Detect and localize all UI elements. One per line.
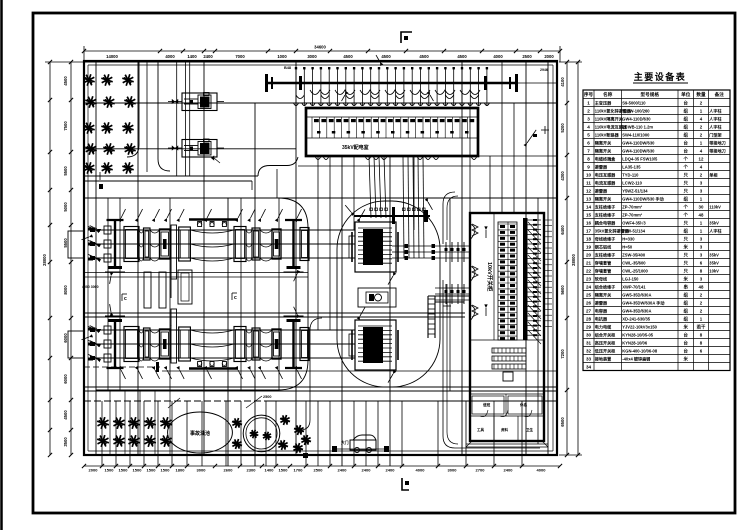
tree strip road edges: [127, 62, 139, 157]
svg-text:单位: 单位: [681, 91, 691, 98]
incoming jumper arrows left: [88, 326, 96, 330]
gate marks bottom: [332, 446, 337, 452]
section marker 1 (bottom): [402, 478, 409, 490]
svg-text:事故油池: 事故油池: [190, 430, 210, 437]
bay terminal towers: [114, 319, 116, 369]
bay leader arrows: [121, 209, 126, 218]
svg-text:组合绝缘子: 组合绝缘子: [595, 283, 615, 289]
svg-text:KYN28-10/06: KYN28-10/06: [622, 340, 648, 345]
svg-text:LGJ-150: LGJ-150: [622, 276, 639, 281]
svg-text:31: 31: [586, 340, 592, 345]
bay overhead ground bar: [189, 367, 238, 369]
svg-text:21: 21: [586, 260, 592, 265]
svg-text:只: 只: [684, 259, 689, 266]
svg-text:14: 14: [586, 204, 592, 209]
svg-text:6000: 6000: [63, 374, 68, 384]
svg-text:GW4-35DW/630A 手动: GW4-35DW/630A 手动: [622, 299, 664, 305]
svg-text:组: 组: [684, 107, 689, 114]
svg-text:3000: 3000: [307, 54, 317, 59]
svg-text:避雷器: 避雷器: [595, 187, 608, 193]
svg-text:4500: 4500: [457, 54, 467, 59]
cable runs group B: [403, 156, 404, 258]
svg-text:组: 组: [684, 291, 689, 298]
svg-text:1500: 1500: [133, 468, 143, 473]
transformer leader arrows: [360, 209, 365, 218]
svg-text:只: 只: [684, 219, 689, 226]
page left scan edge: [0, 0, 3, 530]
pole-mounted device pad: [182, 140, 217, 158]
right side road lines: [478, 155, 557, 157]
sag curves between equipment: [139, 230, 144, 233]
svg-text:GW5-35D/630A: GW5-35D/630A: [622, 292, 651, 297]
svg-text:34: 34: [586, 364, 592, 369]
section marker 1 (top): [401, 32, 412, 43]
10kV busbar: [523, 218, 528, 340]
bridge insulator ticks: [445, 242, 447, 262]
svg-text:避雷器: 避雷器: [595, 299, 608, 305]
svg-text:人字柱: 人字柱: [709, 107, 722, 113]
svg-text:24: 24: [586, 284, 592, 289]
svg-text:14000: 14000: [106, 54, 118, 59]
svg-text:只: 只: [684, 235, 689, 242]
jumper loop row under busbar: [310, 90, 330, 95]
svg-text:5500: 5500: [63, 238, 68, 248]
svg-text:只: 只: [684, 179, 689, 186]
svg-text:4000: 4000: [416, 468, 426, 473]
cable runs 35kV to transformers: group A: [369, 156, 371, 218]
svg-text:1700: 1700: [294, 468, 304, 473]
svg-text:48: 48: [699, 284, 704, 289]
doors on left wall: [470, 224, 475, 240]
svg-text:人字柱: 人字柱: [709, 227, 722, 233]
svg-text:组: 组: [684, 315, 689, 322]
post insulator stacks left: [104, 226, 111, 234]
svg-text:只: 只: [684, 171, 689, 178]
svg-text:2400: 2400: [203, 54, 213, 59]
svg-text:8: 8: [587, 156, 590, 161]
svg-text:单相: 单相: [709, 171, 717, 177]
svg-text:台: 台: [684, 331, 689, 338]
svg-text:接地装置: 接地装置: [595, 355, 611, 361]
110kV yard road outline: [96, 198, 308, 390]
svg-text:YJV22-10kV3x150: YJV22-10kV3x150: [622, 324, 657, 329]
35kV switchgear building: [306, 108, 478, 156]
sag curves between equipment: [139, 330, 144, 333]
svg-text:个: 个: [683, 211, 689, 217]
incoming jumper arrows left: [88, 226, 96, 230]
svg-text:20: 20: [586, 252, 592, 257]
svg-text:c: c: [124, 296, 127, 302]
svg-text:个: 个: [683, 203, 689, 209]
tree grove bottom-left: [97, 417, 109, 429]
svg-text:资料: 资料: [501, 427, 509, 432]
svg-text:隔离开关: 隔离开关: [595, 139, 612, 145]
svg-text:值班: 值班: [483, 402, 491, 407]
site boundary wall: [84, 61, 557, 455]
svg-text:LCWB-110 1.2m: LCWB-110 1.2m: [622, 124, 653, 129]
svg-text:23: 23: [586, 276, 592, 281]
svg-text:CWL-25/1000: CWL-25/1000: [622, 268, 648, 273]
svg-text:2600: 2600: [224, 468, 234, 473]
svg-text:4500: 4500: [381, 54, 391, 59]
svg-text:组合开关柜: 组合开关柜: [595, 331, 615, 337]
svg-text:电抗器: 电抗器: [595, 315, 608, 321]
svg-text:26: 26: [586, 300, 592, 305]
svg-text:2400: 2400: [362, 468, 372, 473]
svg-text:110kV断路器: 110kV断路器: [595, 131, 620, 137]
incoming line busbar: [267, 82, 517, 85]
svg-text:110kV: 110kV: [709, 204, 721, 209]
svg-text:25: 25: [586, 292, 592, 297]
svg-text:5600: 5600: [560, 285, 565, 295]
svg-text:28000: 28000: [42, 254, 47, 266]
svg-text:台: 台: [684, 347, 689, 354]
svg-text:28000: 28000: [571, 254, 576, 266]
svg-text:钢芯铝线: 钢芯铝线: [595, 243, 612, 249]
svg-text:34600: 34600: [314, 45, 326, 50]
svg-text:13: 13: [586, 196, 592, 201]
svg-text:30: 30: [699, 204, 704, 209]
svg-text:H=50: H=50: [622, 244, 633, 249]
right dimension line: [566, 62, 568, 455]
svg-text:30: 30: [586, 332, 592, 337]
svg-text:10kV: 10kV: [709, 268, 719, 273]
busbar suspension drops: [295, 67, 297, 106]
svg-text:电缆终端盒: 电缆终端盒: [595, 155, 616, 161]
svg-text:B48: B48: [284, 66, 291, 70]
svg-text:隔离开关: 隔离开关: [595, 291, 612, 297]
svg-text:29: 29: [586, 324, 592, 329]
svg-text:LDQ4-35 FSW10/5: LDQ4-35 FSW10/5: [622, 156, 658, 161]
svg-text:22: 22: [586, 268, 592, 273]
svg-text:5200: 5200: [560, 123, 565, 133]
svg-text:4500: 4500: [419, 54, 429, 59]
svg-text:米: 米: [684, 323, 689, 330]
svg-text:1500: 1500: [119, 468, 129, 473]
svg-text:S9-5000/110: S9-5000/110: [622, 100, 646, 105]
tower base arrow: [294, 307, 297, 314]
water pond double circle: [243, 415, 280, 452]
svg-text:10: 10: [586, 172, 592, 177]
10kV interior walls: [493, 213, 495, 340]
svg-text:SW4-110/1000: SW4-110/1000: [622, 132, 650, 137]
diagonal feeder fan lines: [528, 222, 541, 236]
svg-text:电压互感器: 电压互感器: [595, 171, 616, 177]
svg-text:7200: 7200: [560, 349, 565, 359]
svg-text:3500: 3500: [63, 437, 68, 447]
3-wire bundle T1 to 10kV building: [392, 245, 470, 247]
main transformer body: [355, 222, 396, 272]
svg-text:XWP-70/141: XWP-70/141: [622, 284, 646, 289]
svg-text:5: 5: [587, 132, 590, 137]
svg-text:35kV: 35kV: [709, 260, 719, 265]
svg-text:4000 3000: 4000 3000: [82, 285, 99, 289]
svg-text:2946: 2946: [540, 68, 548, 72]
svg-text:工具: 工具: [477, 427, 485, 432]
door arcs bottom rooms: [480, 410, 532, 417]
PT/CT equipment between bays: [144, 272, 151, 308]
bottom dimension line: [84, 465, 560, 467]
svg-text:3: 3: [587, 116, 590, 121]
svg-text:4500: 4500: [343, 54, 353, 59]
svg-text:KYN28-10/05-05: KYN28-10/05-05: [622, 332, 653, 337]
svg-text:备注: 备注: [714, 91, 725, 98]
svg-text:3000: 3000: [197, 468, 207, 473]
svg-text:GW4-110DW/630: GW4-110DW/630: [622, 148, 655, 153]
incoming line anchor blocks on wall: [68, 231, 84, 258]
bushings below 35kV building: [315, 156, 321, 160]
louver bars middle section: [492, 348, 526, 353]
svg-text:2400: 2400: [504, 468, 514, 473]
svg-text:主变压器: 主变压器: [595, 99, 612, 105]
svg-text:串: 串: [684, 283, 689, 290]
incoming jumper marks: [88, 228, 93, 231]
svg-text:个: 个: [683, 163, 689, 169]
road around main transformers (stadium): [337, 201, 440, 387]
svg-text:低压开关柜: 低压开关柜: [594, 347, 615, 353]
leader labels bottom: [246, 396, 262, 408]
svg-text:4300: 4300: [560, 171, 565, 181]
svg-text:米: 米: [684, 355, 689, 362]
dim lines below bay row 1: [84, 272, 308, 274]
svg-text:支柱绝缘子: 支柱绝缘子: [594, 251, 615, 257]
svg-text:组: 组: [684, 115, 689, 122]
svg-text:组: 组: [684, 195, 689, 202]
svg-text:主要设备表: 主要设备表: [634, 71, 687, 82]
svg-text:10kV开关柜: 10kV开关柜: [486, 262, 494, 292]
horizontal road lines: [84, 102, 557, 104]
bottom rooms: [470, 415, 544, 417]
svg-text:-40x4 镀锌扁钢: -40x4 镀锌扁钢: [622, 355, 650, 361]
svg-text:人字柱: 人字柱: [709, 115, 722, 121]
svg-text:1000: 1000: [277, 54, 287, 59]
top dimension line: [84, 50, 560, 52]
svg-text:2300: 2300: [247, 468, 257, 473]
svg-text:名称: 名称: [603, 91, 613, 98]
svg-text:4500: 4500: [63, 76, 68, 86]
svg-text:12: 12: [586, 188, 592, 193]
left dimension line: [49, 62, 51, 455]
svg-text:2500: 2500: [522, 54, 532, 59]
svg-text:1500: 1500: [147, 468, 157, 473]
35kV cell row: [311, 117, 313, 138]
svg-text:35kV: 35kV: [709, 252, 719, 257]
svg-text:110kV隔离开关: 110kV隔离开关: [595, 115, 624, 121]
svg-text:2400: 2400: [338, 468, 348, 473]
svg-text:若干: 若干: [697, 323, 706, 330]
svg-text:Y10W-100/260: Y10W-100/260: [622, 108, 650, 113]
svg-text:台: 台: [684, 339, 689, 346]
svg-text:6400: 6400: [560, 225, 565, 235]
svg-text:2000: 2000: [544, 54, 554, 59]
svg-text:6000: 6000: [63, 333, 68, 343]
svg-text:支柱绝缘子: 支柱绝缘子: [594, 211, 615, 217]
svg-text:32: 32: [586, 348, 592, 353]
bay terminal towers: [114, 219, 116, 269]
svg-text:只: 只: [684, 187, 689, 194]
svg-text:TYD-110: TYD-110: [622, 172, 639, 177]
svg-text:组: 组: [684, 131, 689, 138]
svg-text:OWF4-35/√3: OWF4-35/√3: [622, 220, 646, 225]
svg-text:CWL-35/600: CWL-35/600: [622, 260, 646, 265]
svg-text:2000: 2000: [89, 468, 99, 473]
main transformer body: [355, 320, 396, 370]
verticals descending to bottom dim line: [101, 401, 103, 466]
svg-text:组: 组: [684, 307, 689, 314]
svg-text:台: 台: [684, 139, 689, 146]
main equipment table grid: [583, 90, 730, 371]
svg-text:35kV: 35kV: [709, 220, 719, 225]
svg-text:1500: 1500: [161, 468, 171, 473]
svg-text:LA35-135: LA35-135: [622, 164, 641, 169]
svg-text:米: 米: [684, 275, 689, 282]
svg-text:c: c: [234, 295, 237, 301]
transformer HV jumper bus: [354, 215, 430, 217]
svg-text:组: 组: [684, 227, 689, 234]
svg-text:支柱绝缘子: 支柱绝缘子: [594, 203, 615, 209]
svg-text:卫生: 卫生: [526, 427, 534, 432]
svg-text:16: 16: [586, 220, 592, 225]
dashed axis between bays: [84, 366, 160, 368]
svg-text:门型架: 门型架: [709, 131, 722, 137]
svg-text:大门: 大门: [341, 440, 349, 445]
svg-text:米: 米: [684, 243, 689, 250]
steps outside building bottom: [466, 443, 548, 445]
trees in/near pond: [250, 430, 259, 439]
svg-text:组: 组: [684, 299, 689, 306]
svg-text:15: 15: [586, 212, 592, 217]
svg-text:4500: 4500: [63, 410, 68, 420]
svg-text:XD-241-630/35: XD-241-630/35: [622, 316, 650, 321]
10kV cells column: [498, 222, 517, 340]
wall arrows: [485, 230, 487, 238]
svg-text:LCW2-110: LCW2-110: [622, 180, 642, 185]
pole-mounted device pad: [182, 93, 217, 111]
spot elevation marks: [541, 129, 549, 131]
svg-text:27: 27: [586, 308, 592, 313]
svg-text:台: 台: [684, 147, 689, 154]
svg-text:避雷器: 避雷器: [595, 163, 608, 169]
svg-text:ZP-70mm²: ZP-70mm²: [622, 204, 642, 209]
svg-text:19: 19: [586, 244, 592, 249]
svg-text:Y5W-51/134: Y5W-51/134: [622, 228, 645, 233]
svg-text:1400: 1400: [265, 468, 275, 473]
svg-text:型号规格: 型号规格: [641, 91, 660, 98]
svg-text:GW4-35D/630A: GW4-35D/630A: [622, 308, 651, 313]
svg-text:12: 12: [699, 156, 704, 161]
vertical axis lines: [95, 62, 97, 455]
svg-text:母线绝缘子: 母线绝缘子: [595, 235, 615, 241]
road S-curve to 35kV building: [258, 157, 298, 176]
feeder comb right of busbar: [527, 219, 541, 221]
svg-text:9: 9: [587, 164, 590, 169]
svg-text:人字柱: 人字柱: [709, 123, 722, 129]
road around 10kV building: [443, 192, 540, 448]
tower base arrow: [294, 274, 297, 281]
car symbol: [350, 440, 376, 450]
svg-text:高压开关柜: 高压开关柜: [595, 339, 615, 345]
svg-text:H=330: H=330: [622, 236, 635, 241]
svg-text:6: 6: [587, 140, 590, 145]
svg-text:个: 个: [683, 155, 689, 161]
svg-text:电流互感器: 电流互感器: [595, 179, 616, 185]
svg-text:只: 只: [684, 251, 689, 258]
road double line under tree strip: [84, 175, 258, 177]
svg-text:带接地刀: 带接地刀: [709, 139, 725, 145]
svg-text:KGN-400-10/06-08: KGN-400-10/06-08: [622, 348, 658, 353]
svg-text:电容器: 电容器: [595, 307, 608, 313]
svg-text:5500: 5500: [63, 166, 68, 176]
svg-text:8000: 8000: [63, 285, 68, 295]
svg-text:4100: 4100: [560, 77, 565, 87]
svg-text:28: 28: [586, 316, 592, 321]
svg-text:6500: 6500: [560, 417, 565, 427]
svg-text:Y5WZ-51/134: Y5WZ-51/134: [622, 188, 648, 193]
svg-text:2: 2: [587, 108, 590, 113]
110kV bay three-phase wires: [88, 329, 355, 331]
gate mark on road: [99, 184, 103, 189]
svg-text:休息: 休息: [519, 402, 528, 407]
3-wire bundle bridge B: [435, 287, 470, 289]
svg-text:台: 台: [684, 99, 689, 106]
svg-text:35kV配电室: 35kV配电室: [342, 144, 369, 151]
small cabinet: [503, 372, 513, 381]
svg-text:1500: 1500: [105, 468, 115, 473]
feeder ticks right wall: [544, 219, 552, 221]
svg-text:33: 33: [586, 356, 592, 361]
slope arrow: [527, 130, 536, 143]
svg-text:只: 只: [684, 267, 689, 274]
svg-text:1: 1: [587, 100, 590, 105]
svg-text:7000: 7000: [235, 54, 245, 59]
svg-text:4000: 4000: [493, 54, 503, 59]
bay equipment rects: [124, 227, 139, 262]
svg-text:隔离开关: 隔离开关: [595, 147, 612, 153]
svg-text:数量: 数量: [696, 91, 706, 98]
svg-text:组: 组: [684, 123, 689, 130]
svg-text:GW4-110DW/630: GW4-110DW/630: [622, 140, 655, 145]
svg-text:1400: 1400: [187, 54, 197, 59]
svg-text:4000: 4000: [537, 468, 547, 473]
svg-text:2500: 2500: [314, 468, 324, 473]
bay equipment rects: [124, 327, 139, 362]
svg-text:48: 48: [699, 212, 704, 217]
bay leader arrows: [121, 370, 126, 379]
svg-text:4: 4: [587, 124, 590, 129]
svg-text:11: 11: [586, 180, 591, 185]
PT column pair: [170, 325, 172, 326]
svg-text:软母线: 软母线: [595, 275, 608, 281]
svg-text:穿墙套管: 穿墙套管: [595, 267, 611, 273]
svg-text:GW4-110D/630: GW4-110D/630: [622, 116, 651, 121]
svg-text:3000: 3000: [448, 468, 458, 473]
svg-text:穿墙套管: 穿墙套管: [595, 259, 611, 265]
svg-text:带接地刀: 带接地刀: [709, 147, 725, 153]
svg-text:耦合电容器: 耦合电容器: [595, 219, 616, 225]
svg-text:ZSW-35/400: ZSW-35/400: [622, 252, 646, 257]
cable trench ladder: [427, 296, 429, 338]
svg-text:电力电缆: 电力电缆: [595, 323, 612, 329]
svg-text:5000: 5000: [63, 202, 68, 212]
svg-text:4000: 4000: [165, 54, 175, 59]
post insulator stacks left: [104, 326, 111, 334]
svg-text:2500: 2500: [263, 395, 271, 399]
svg-text:ZP-70mm²: ZP-70mm²: [622, 212, 642, 217]
svg-text:17: 17: [586, 228, 592, 233]
accident oil pond: [168, 412, 233, 453]
PT column pair: [170, 225, 172, 298]
svg-text:序号: 序号: [584, 91, 594, 98]
